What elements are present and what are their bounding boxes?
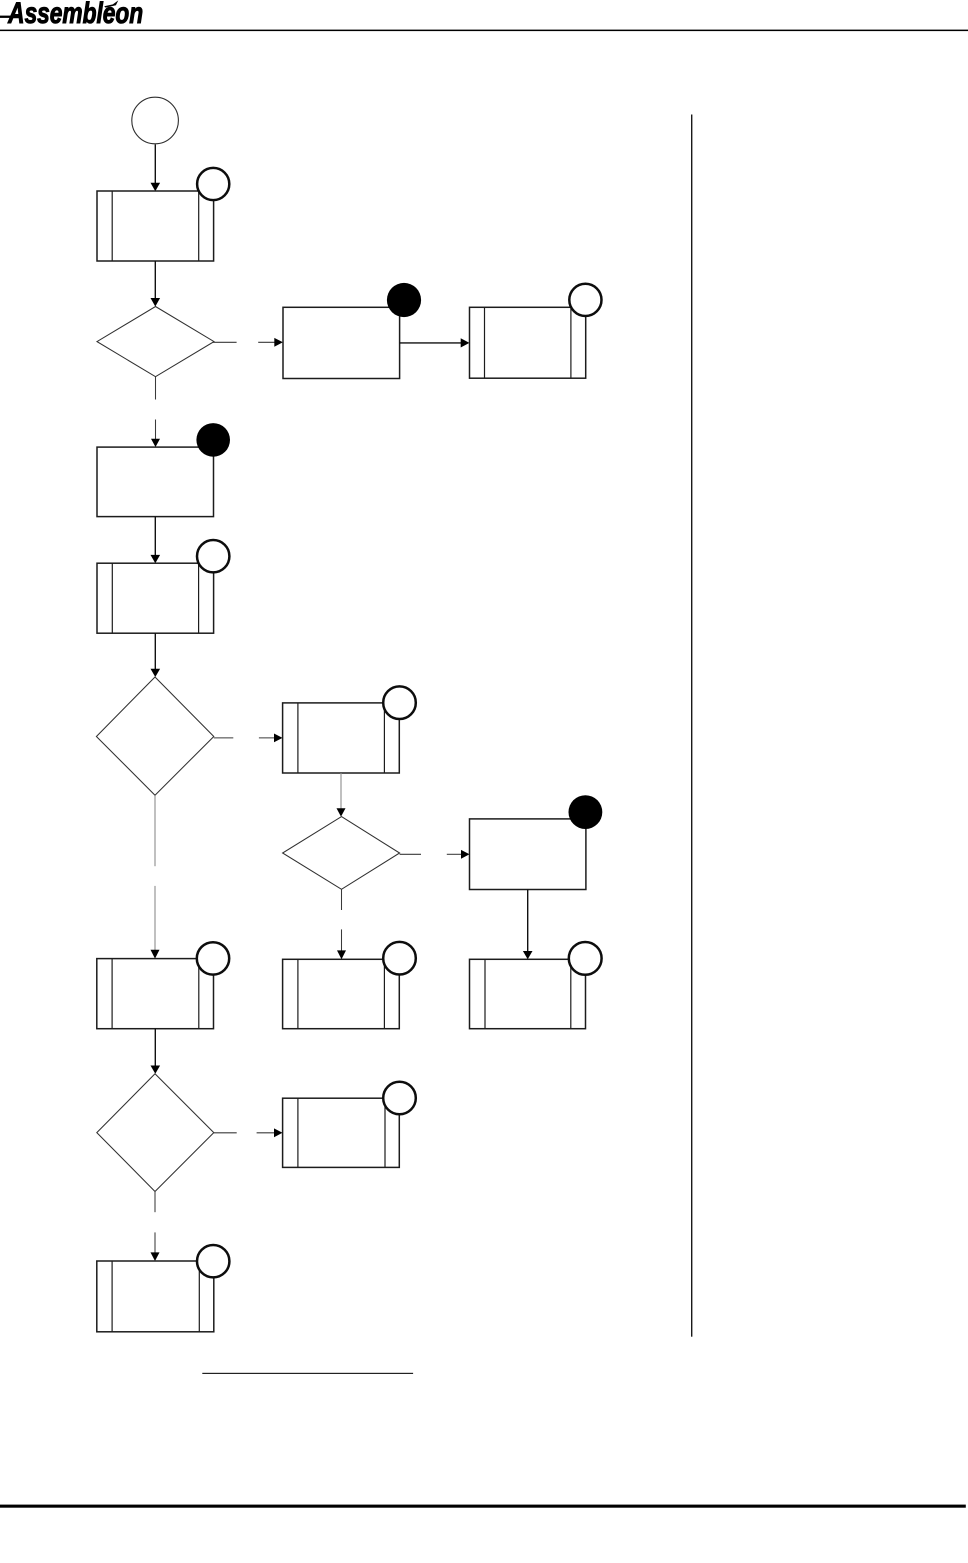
- decision diamond 2: [96, 677, 213, 795]
- arrowhead into box A: [151, 183, 161, 192]
- decision diamond 4: [97, 1074, 214, 1192]
- wire: box D to box E: [154, 517, 156, 556]
- process box D: [97, 447, 214, 516]
- wire: diamond 1 right, segment 2: [258, 341, 275, 343]
- subroutine box I: [283, 959, 400, 1028]
- subroutine box F: [283, 703, 400, 773]
- arrowhead into diamond 3: [337, 808, 346, 816]
- process box B: [283, 307, 400, 378]
- wire: diamond 2 right, segment 1: [214, 737, 234, 739]
- annotation circle E1 (open): [197, 540, 229, 572]
- arrowhead into box H: [523, 951, 533, 959]
- arrowhead into box G: [461, 850, 470, 859]
- annotation circle F1 (open): [383, 686, 416, 719]
- subroutine box H: [470, 959, 586, 1028]
- wire: diamond 2 bottom long gray, segment 2: [154, 886, 156, 950]
- wire: diamond 1 bottom, segment 2: [155, 420, 157, 440]
- wire: box E to diamond 2: [154, 633, 156, 669]
- wire: diamond 2 bottom long gray, segment 1: [154, 796, 156, 866]
- wire: box J to diamond 4: [154, 1029, 156, 1066]
- subroutine box K: [283, 1098, 400, 1167]
- arrowhead into box E: [151, 555, 161, 563]
- wire: diamond 3 right, segment 2: [447, 853, 462, 855]
- decision diamond 1: [97, 307, 214, 377]
- footnote separator line: [202, 1373, 413, 1374]
- wire: box G to box H: [527, 890, 529, 952]
- arrowhead into diamond 2: [151, 669, 161, 677]
- wire: diamond 4 bottom, segment 1: [154, 1192, 156, 1213]
- subroutine box C: [470, 307, 586, 378]
- header rule: [0, 30, 968, 32]
- annotation circle G1 (filled): [569, 795, 603, 829]
- wire: diamond 3 right, segment 1: [400, 853, 421, 855]
- annotation circle D1 (filled): [196, 423, 230, 457]
- annotation circle C1 (open): [569, 284, 601, 316]
- wire: diamond 4 right, segment 2: [257, 1132, 275, 1134]
- logo accent swoosh over e: [104, 0, 118, 7]
- svg-text:Assembleon: Assembleon: [7, 0, 143, 30]
- wire: diamond 4 bottom, segment 2: [154, 1232, 156, 1253]
- annotation circle B1 (filled): [387, 283, 421, 317]
- annotation circle L1 (open): [197, 1245, 229, 1277]
- annotation circle A1 (open): [197, 168, 229, 200]
- arrowhead into box K: [274, 1128, 283, 1137]
- arrowhead into box J: [151, 950, 160, 959]
- subroutine box A: [97, 191, 214, 261]
- wire: diamond 2 right, segment 2: [259, 737, 275, 739]
- bottom rule: [0, 1505, 966, 1508]
- subroutine box L: [97, 1261, 214, 1332]
- wire: start circle to box A: [154, 144, 156, 183]
- arrowhead into diamond 4: [151, 1066, 161, 1074]
- logo strike line through A: [0, 16, 19, 18]
- right sidebar change bar: [691, 115, 692, 1337]
- arrowhead into box L: [151, 1252, 160, 1261]
- wire: box A to diamond 1: [154, 261, 156, 299]
- arrowhead into box F: [274, 734, 283, 743]
- subroutine box E: [97, 563, 214, 633]
- start circle: [132, 97, 179, 144]
- arrowhead into box B: [274, 338, 283, 347]
- decision diamond 3: [283, 817, 400, 890]
- wire: box F to diamond 3 (thin gray): [340, 773, 342, 809]
- annotation circle K1 (open): [383, 1082, 416, 1115]
- wire: box B to box C: [400, 342, 462, 344]
- arrowhead into box D: [151, 439, 160, 447]
- wire: diamond 3 bottom, segment 2: [341, 929, 343, 951]
- arrowhead into diamond 1: [151, 298, 161, 307]
- subroutine box J: [97, 959, 214, 1029]
- wire: diamond 1 right, segment 1: [213, 341, 237, 343]
- annotation circle J1 (open): [197, 942, 229, 974]
- wire: diamond 4 right, segment 1: [214, 1132, 237, 1134]
- logo text Assembleon: [7, 0, 143, 30]
- process box G: [470, 819, 586, 890]
- arrowhead into box I: [337, 950, 346, 959]
- annotation circle I1 (open): [383, 942, 416, 975]
- wire: diamond 1 bottom, segment 1: [155, 377, 157, 400]
- wire: diamond 3 bottom, segment 1: [341, 889, 343, 910]
- arrowhead into box C: [461, 338, 470, 347]
- annotation circle H1 (open): [569, 942, 602, 975]
